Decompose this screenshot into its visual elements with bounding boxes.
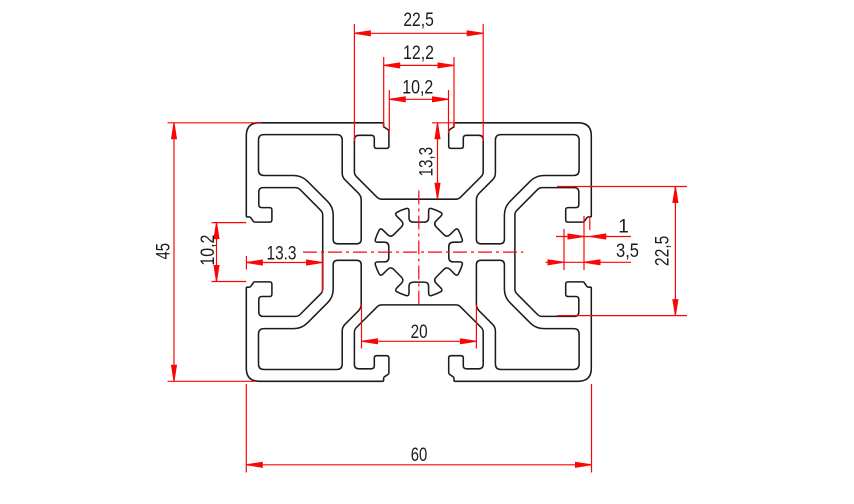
svg-text:10,2: 10,2	[402, 77, 433, 98]
svg-text:1: 1	[618, 217, 629, 238]
svg-text:13.3: 13.3	[267, 243, 297, 264]
svg-text:22,5: 22,5	[653, 236, 674, 267]
svg-text:45: 45	[153, 243, 174, 259]
svg-text:10,2: 10,2	[198, 235, 219, 266]
svg-text:22,5: 22,5	[403, 10, 434, 31]
svg-text:20: 20	[411, 322, 428, 343]
svg-text:12,2: 12,2	[403, 43, 434, 64]
svg-text:13,3: 13,3	[417, 147, 438, 177]
svg-text:3,5: 3,5	[616, 241, 639, 262]
svg-text:60: 60	[411, 445, 428, 466]
